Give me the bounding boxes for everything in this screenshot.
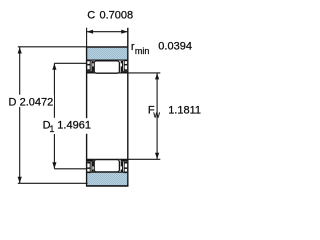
bearing silhouette left edge <box>86 47 88 186</box>
roller top <box>94 61 119 73</box>
D1 top extension line <box>54 62 86 64</box>
top section raceway line <box>87 59 128 61</box>
outer ring top section (shaded) <box>87 48 127 61</box>
outer ring bottom section (shaded) <box>87 172 127 185</box>
Fw arrow down <box>155 153 159 159</box>
Fw dimension line <box>156 73 158 159</box>
D top extension line <box>18 46 87 48</box>
D1 dimension line <box>53 63 55 169</box>
Fw arrow up <box>155 73 159 79</box>
corner cluster top-left <box>87 60 94 74</box>
top section bore line + Fw top extension <box>87 72 161 74</box>
label D with mask <box>7 95 55 107</box>
svg-text:w: w <box>152 110 160 120</box>
svg-text:2.0472: 2.0472 <box>20 96 54 108</box>
D1 arrow down <box>52 162 56 168</box>
svg-text:C: C <box>87 10 95 22</box>
svg-text:1: 1 <box>49 124 54 134</box>
D arrow down <box>18 177 22 183</box>
bottom section raceway line <box>87 171 128 173</box>
D dimension line <box>19 47 21 183</box>
C arrow left <box>87 30 93 34</box>
label D1 with mask <box>41 118 90 133</box>
bearing bottom edge <box>86 185 129 187</box>
C arrow right <box>121 30 127 34</box>
svg-text:1.1811: 1.1811 <box>168 104 201 116</box>
corner cluster top-right <box>121 60 128 74</box>
svg-text:min: min <box>135 46 150 56</box>
svg-text:D: D <box>9 96 17 108</box>
corner cluster bottom-right <box>121 160 128 174</box>
svg-text:1.4961: 1.4961 <box>57 119 91 131</box>
svg-text:0.0394: 0.0394 <box>158 40 192 52</box>
bearing silhouette right edge <box>127 28 129 186</box>
D1 arrow up <box>52 64 56 70</box>
D1 bottom extension line <box>54 168 86 170</box>
D bottom extension line <box>18 182 88 184</box>
bottom section bore line + Fw bottom extension <box>87 158 161 160</box>
C extension line left <box>86 28 88 47</box>
C dimension line <box>87 31 128 33</box>
roller bottom <box>94 160 119 172</box>
corner cluster bottom-left <box>87 160 94 174</box>
bearing top edge <box>86 46 129 48</box>
svg-text:0.7008: 0.7008 <box>100 10 134 22</box>
D arrow up <box>18 47 22 53</box>
